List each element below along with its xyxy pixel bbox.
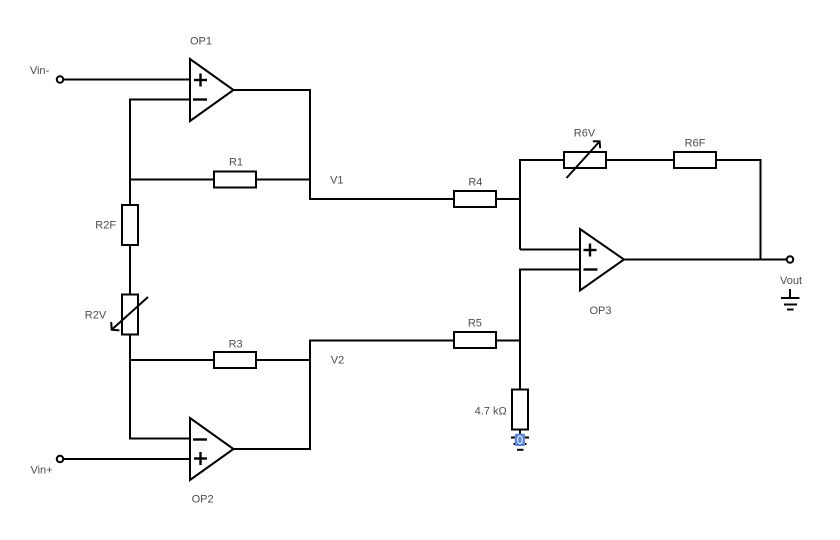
svg-text:R6F: R6F — [685, 138, 706, 150]
svg-text:Vin-: Vin- — [30, 65, 50, 77]
svg-text:OP1: OP1 — [190, 35, 212, 47]
svg-text:R3: R3 — [229, 339, 243, 351]
svg-text:OP3: OP3 — [589, 305, 611, 317]
svg-text:V1: V1 — [330, 175, 343, 187]
svg-text:4.7 kΩ: 4.7 kΩ — [475, 405, 507, 417]
svg-text:R2F: R2F — [95, 220, 116, 232]
svg-text:V2: V2 — [331, 355, 344, 367]
svg-text:Vout: Vout — [780, 275, 802, 287]
svg-text:R5: R5 — [468, 318, 482, 330]
svg-text:0: 0 — [517, 435, 523, 447]
svg-text:R1: R1 — [229, 157, 243, 169]
svg-text:R2V: R2V — [85, 310, 107, 322]
svg-text:OP2: OP2 — [192, 494, 214, 506]
svg-text:Vin+: Vin+ — [30, 465, 52, 477]
svg-text:R4: R4 — [468, 176, 482, 188]
svg-text:R6V: R6V — [574, 128, 596, 140]
